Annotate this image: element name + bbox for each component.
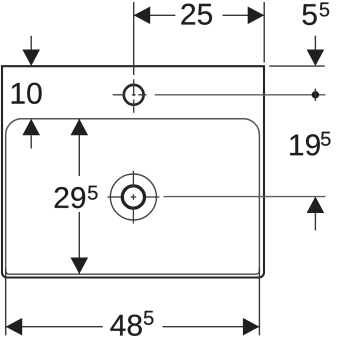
dimension 48.5: left arrowhead <box>6 318 23 336</box>
drain horizontal centerline <box>108 196 160 198</box>
dimension 48.5: dimension line <box>6 326 260 328</box>
dimension 48.5: right arrowhead <box>243 318 260 336</box>
dimension 10: lower arrowhead (points up to bowl edge) <box>22 119 40 136</box>
dimension 25: right arrowhead <box>248 7 265 25</box>
dimension 5.5: label <box>303 3 330 26</box>
basin bowl outline <box>6 119 260 274</box>
drain hole outer circle <box>110 174 156 220</box>
dimension 48.5: extension line left <box>5 268 7 335</box>
faucet hole circle <box>124 85 144 105</box>
dimension 10: upper arrow stem <box>30 36 32 50</box>
dimension 29.5: label <box>55 186 98 209</box>
drain hole inner ring <box>122 186 144 208</box>
faucet hole horizontal centerline <box>113 94 147 96</box>
drain centerline extension to right edge <box>164 196 326 198</box>
faucet centerline extension to right edge <box>155 94 326 96</box>
dimension 29.5: bottom arrowhead <box>71 258 89 275</box>
dimension 25: extension line left (above faucet) <box>133 2 135 75</box>
dimension 19.5: label <box>290 132 330 156</box>
dimension 19.5: arrowhead <box>307 197 325 214</box>
dimension 25: extension line right (above right edge) <box>263 2 265 63</box>
dimension 48.5: label <box>110 311 153 336</box>
drain vertical centerline <box>132 171 134 224</box>
dimension 5.5: extension line of top edge <box>269 65 325 67</box>
dimension 19.5: arrow stem <box>314 213 316 230</box>
washbasin outer outline <box>2 66 264 277</box>
dimension 10: lower arrow stem <box>30 135 32 148</box>
dimension 5.5: arrowhead <box>307 50 325 67</box>
dimension 29.5: dimension line upper segment <box>78 119 80 176</box>
dimension 25: label <box>181 4 212 25</box>
faucet hole vertical centerline <box>133 79 135 113</box>
dimension 5.5: arrow stem <box>314 36 316 50</box>
dimension 29.5: top arrowhead <box>71 119 89 136</box>
dimension 10: label <box>12 83 42 104</box>
dimension 29.5: dimension line lower segment <box>78 212 80 274</box>
dimension 25: dimension line <box>134 14 265 16</box>
dimension 10: upper arrowhead (points down to top edge) <box>22 50 40 67</box>
dimension 25: left arrowhead <box>134 7 151 25</box>
dimension 48.5: extension line right <box>258 269 260 336</box>
dimension 5.5/19.5: dot terminator at faucet centerline <box>312 89 319 101</box>
